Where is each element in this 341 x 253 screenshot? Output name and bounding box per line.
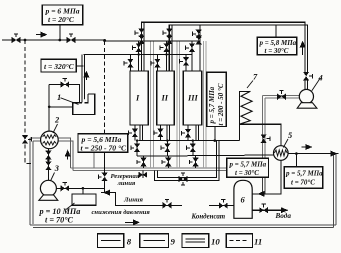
heater branch valve <box>61 79 70 88</box>
exchanger 2 label leader <box>53 124 58 133</box>
svg-text:I: I <box>135 94 140 103</box>
gray double vertical pump4-line down to valve and box <box>262 96 265 158</box>
column III pipe D <box>185 55 187 72</box>
svg-text:t = 250 - 70 °C: t = 250 - 70 °C <box>81 143 127 152</box>
pump 4 inlet valve <box>277 91 286 100</box>
junction dot heater line <box>48 106 51 109</box>
connector p58 box to header <box>275 25 277 37</box>
valve col II G <box>162 158 171 167</box>
legend box 8 <box>98 234 124 248</box>
condensate collection line 5.7MPa <box>139 140 240 142</box>
gray double line coil to pump 4 <box>262 96 299 98</box>
svg-text:4: 4 <box>318 74 323 83</box>
junction dot col II line54 <box>165 53 167 55</box>
svg-text:t = 30°C: t = 30°C <box>265 47 289 55</box>
legend box 9 <box>140 234 169 248</box>
junction dot col I line54 <box>138 53 140 55</box>
vessel 6 <box>234 180 252 218</box>
junction dot suction <box>47 159 49 161</box>
column I pipe D <box>129 55 131 72</box>
svg-text:III: III <box>187 94 199 103</box>
valve col III G <box>189 158 198 167</box>
vessel I <box>130 71 148 125</box>
svg-text:снижения давления: снижения давления <box>92 209 151 216</box>
gray water double line: left vertical <box>30 138 33 225</box>
svg-text:Конденсат: Конденсат <box>191 214 226 221</box>
arrow right bottom line <box>125 221 139 223</box>
valve col I top B <box>138 35 144 44</box>
gray water double line: right vertical <box>333 154 336 228</box>
pump 4 base <box>297 103 317 109</box>
valve col II top A <box>163 29 172 38</box>
steam header line 2 <box>169 25 307 73</box>
pump 3 outlet line <box>56 187 104 189</box>
svg-text:8: 8 <box>127 236 132 246</box>
arrow right water out <box>277 209 287 211</box>
column I drain stub below water line <box>142 170 144 177</box>
exchanger 2 outlet valve 2 <box>45 162 51 171</box>
legend box 11 <box>226 234 252 248</box>
valve branch line to heater <box>49 85 79 103</box>
exchanger 5 label leader <box>283 139 288 148</box>
reducer rectangle <box>72 194 96 205</box>
gray double vertical between columns 2-3 <box>177 41 180 168</box>
gray water double line: bottom horizontal <box>30 225 336 228</box>
leader from 5,6 box to water line <box>93 152 95 168</box>
column III bottom pipe E <box>187 125 189 141</box>
svg-text:11: 11 <box>254 237 262 247</box>
svg-text:t = 70°C: t = 70°C <box>45 216 73 225</box>
reducer leader <box>66 203 75 210</box>
svg-text:p = 5,8 МПа: p = 5,8 МПа <box>259 39 297 47</box>
svg-text:II: II <box>161 94 169 103</box>
pressure reduction line valve <box>163 199 172 208</box>
valve col III F <box>187 144 196 153</box>
svg-text:5: 5 <box>288 131 292 140</box>
column I pipe F <box>136 141 138 157</box>
exchanger 2 inlet top <box>48 122 50 131</box>
valve col III E <box>182 129 191 138</box>
column I bottom pipe pair <box>140 125 143 141</box>
svg-text:p = 5,7 МПа: p = 5,7 МПа <box>285 170 323 178</box>
heater 1 label leader <box>61 98 79 105</box>
column I second top pipe <box>143 23 145 71</box>
svg-text:t = 200 - 50 °C: t = 200 - 50 °C <box>217 83 225 125</box>
exchanger 5 bottom pipe to vessel 6 <box>252 160 281 194</box>
column III bottom pipe pair <box>196 125 199 141</box>
gray double vertical between columns 1-2 <box>151 41 154 168</box>
heater 1 body <box>73 94 95 115</box>
arrow flow top left <box>36 34 47 36</box>
junction dot exchanger5 right <box>295 152 298 155</box>
black line t320 level <box>83 54 192 56</box>
leader t320 box to heater pipe <box>76 65 83 67</box>
column II pipe F <box>166 141 168 157</box>
valve main inlet second <box>67 34 76 43</box>
main steam pipe from left <box>2 40 201 41</box>
svg-text:t = 70°C: t = 70°C <box>291 179 315 187</box>
drop pair from 140.6 line to lower loop <box>155 141 219 181</box>
valve col II E <box>154 129 163 138</box>
label box p6 <box>42 5 82 25</box>
column II pipe C <box>166 41 168 71</box>
junction dot col III F <box>192 139 194 141</box>
valve col III top B <box>196 36 202 45</box>
junction dot pump3 line <box>82 187 85 190</box>
svg-text:2: 2 <box>54 115 59 124</box>
label box p57 70C <box>284 167 322 189</box>
valve col III D <box>180 57 189 66</box>
column III second top pipe <box>199 26 201 72</box>
condensate valve <box>219 200 228 209</box>
gray double from exchanger 2 right down <box>58 138 73 170</box>
column II bottom pipe E <box>159 125 161 141</box>
stub from pump3 line to reducer box <box>82 188 84 194</box>
svg-text:Вода: Вода <box>275 212 292 220</box>
heater inlet pipe pair <box>82 55 84 103</box>
exchanger 2 outlet valve 1 <box>45 151 51 160</box>
coil 7 label leader <box>247 81 253 89</box>
heater outlet line to exchanger vertical <box>49 85 72 132</box>
valve col III C <box>186 44 195 53</box>
coil 7 zigzag <box>240 91 253 124</box>
label box p57 30C <box>227 158 269 177</box>
arrow right outlet end <box>330 153 337 155</box>
label box p58 <box>257 37 296 54</box>
arrow up water left <box>67 151 69 160</box>
svg-text:1: 1 <box>57 93 61 102</box>
pump 4 label leader <box>312 78 321 91</box>
exchanger 2 circle <box>41 131 59 149</box>
svg-text:p = 5,7 МПа: p = 5,7 МПа <box>229 161 267 169</box>
junction dot reserve top <box>103 39 106 42</box>
pump 3 label leader <box>51 173 55 182</box>
arrow up header right <box>302 42 304 56</box>
svg-text:Линия: Линия <box>123 197 144 204</box>
valve main inlet left <box>12 34 21 43</box>
exchanger 5 outlet right <box>288 153 338 155</box>
valve col II F <box>161 144 170 153</box>
label box t320 <box>41 59 76 72</box>
small drain valve col I <box>139 172 148 178</box>
column III pipe C <box>191 41 193 71</box>
valve col II C <box>160 43 169 52</box>
reserve line valve lower <box>98 173 107 182</box>
svg-text:3: 3 <box>54 164 59 173</box>
connector p6 box to pipe <box>59 25 61 40</box>
dashed reserve line from main pipe <box>104 41 106 134</box>
svg-text:p = 5,7 МПа: p = 5,7 МПа <box>208 86 216 124</box>
valve col III top A <box>192 30 201 39</box>
junction dot main pipe dashed <box>24 39 27 42</box>
vessel II <box>157 71 174 125</box>
exchanger 5 circle <box>274 146 289 161</box>
steam header line 1 <box>142 22 305 72</box>
pump 3 base <box>39 195 58 200</box>
column III pipe F <box>192 141 194 157</box>
column I bottom pipe E <box>134 125 136 141</box>
rotated label box p57 <box>207 72 227 126</box>
column II pipe D <box>156 55 158 72</box>
label box p56 <box>78 134 128 153</box>
leader rotated box to line <box>214 127 216 141</box>
column I pipe G <box>143 156 145 168</box>
pump 4 circle <box>299 89 313 103</box>
pump 3 circle <box>40 180 56 196</box>
pump 4 top valve <box>303 72 312 81</box>
gray double horizontal mid (to exchanger 5 area) <box>70 168 226 171</box>
coil left pipe <box>239 91 250 140</box>
valve col II top B <box>166 35 172 44</box>
junction dot p6 connector <box>58 39 61 42</box>
column II pipe G <box>167 156 169 168</box>
line F level to exchanger 5 <box>137 154 274 156</box>
svg-text:t = 320°C: t = 320°C <box>44 62 75 71</box>
junction dot col II F <box>166 139 168 141</box>
vessel III <box>183 71 202 125</box>
valve col II D <box>151 59 160 68</box>
valve col I top A <box>135 29 144 38</box>
dashed reserve line left <box>25 40 32 163</box>
column I pipe C (41 to 54.5) <box>138 41 140 71</box>
reserve line valve left <box>22 135 31 144</box>
svg-text:9: 9 <box>171 237 176 247</box>
svg-text:t = 20°C: t = 20°C <box>48 15 75 24</box>
svg-text:10: 10 <box>211 237 220 247</box>
junction dot col I F <box>136 139 138 141</box>
gray line lower valve <box>261 134 270 143</box>
exchanger 5 coil <box>274 150 287 156</box>
pipe pair valve to pump 4 <box>305 80 308 90</box>
column II second top pipe <box>171 26 173 72</box>
column III pipe G <box>195 156 197 168</box>
reserve line lower vertical <box>104 152 106 192</box>
arrow left into vessel 6 <box>259 193 270 195</box>
gray double vertical right of column 3 <box>204 41 207 168</box>
valve col I E <box>129 129 138 138</box>
pressure reduction line <box>101 193 234 206</box>
exchanger 2 coils <box>43 135 57 145</box>
valve col I G <box>137 158 146 167</box>
legend box 10 <box>182 234 209 248</box>
arrow left pressure line <box>104 192 111 194</box>
arrow right above outlet <box>302 146 312 148</box>
pump 3 outlet valve <box>61 182 70 191</box>
svg-text:t = 30°C: t = 30°C <box>235 169 259 177</box>
svg-text:7: 7 <box>253 73 258 82</box>
svg-text:линия: линия <box>117 180 136 187</box>
valve col I F <box>131 144 140 153</box>
water out line from vessel 6 <box>252 209 287 211</box>
arrow up heater pipe <box>85 72 87 81</box>
junction dot rotated box leader <box>214 139 217 142</box>
water outlet valve <box>259 204 268 213</box>
coil outlet to exchanger 5 <box>239 124 281 146</box>
column II bottom pipe pair <box>167 125 170 141</box>
gray pair below box 5,7/30 to water arrow line <box>262 178 265 194</box>
gray double from exchanger 2 left <box>30 138 41 141</box>
exchanger 2 bottom to pump 3 <box>47 149 49 181</box>
valve col I D <box>124 59 133 68</box>
branch down to 70C box <box>295 154 297 167</box>
loop line valve <box>179 173 188 185</box>
valve col I C <box>132 43 141 52</box>
